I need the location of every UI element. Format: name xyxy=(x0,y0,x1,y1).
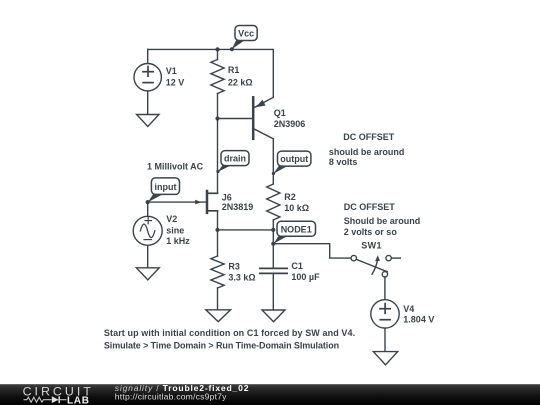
svg-text:drain: drain xyxy=(224,154,246,164)
svg-text:2N3906: 2N3906 xyxy=(274,119,306,129)
svg-text:DC OFFSET: DC OFFSET xyxy=(343,132,395,142)
capacitor C1 xyxy=(260,268,287,310)
net flag input xyxy=(148,178,180,202)
transistor Q1 (PNP 2N3906) xyxy=(253,97,273,139)
svg-text:V2: V2 xyxy=(166,214,177,224)
resistor R3 xyxy=(211,230,224,310)
arrow gate pointing right xyxy=(195,200,201,205)
CircuitLab logo diode xyxy=(52,396,59,403)
svg-text:DC OFFSET: DC OFFSET xyxy=(344,202,396,212)
wire V2 top lead xyxy=(147,202,149,216)
svg-text:output: output xyxy=(280,154,308,164)
wire switch right stub xyxy=(391,257,400,259)
svg-text:C1: C1 xyxy=(291,261,303,271)
svg-text:1 Millivolt AC: 1 Millivolt AC xyxy=(147,162,204,172)
net flag output xyxy=(272,151,311,175)
net flag drain xyxy=(216,151,249,173)
svg-text:1 kHz: 1 kHz xyxy=(166,236,190,246)
node junction dot at J6 source (217.5,230) xyxy=(215,228,219,232)
ground C1 xyxy=(262,310,285,322)
wire switch to V4 xyxy=(384,277,386,300)
node junction dot top rail / R1 xyxy=(215,47,219,51)
svg-text:sine: sine xyxy=(166,225,184,235)
svg-text:Vcc: Vcc xyxy=(238,29,254,39)
svg-text:R3: R3 xyxy=(228,261,240,271)
svg-text:12 V: 12 V xyxy=(166,77,185,87)
resistor R2 xyxy=(267,184,280,268)
node junction dot Vcc attach xyxy=(230,47,234,51)
ground V1 xyxy=(137,115,159,127)
wire V1 bottom lead xyxy=(147,91,149,115)
wire J6 gate xyxy=(148,201,206,203)
svg-text:LAB: LAB xyxy=(67,395,90,405)
wire NODE1 to switch xyxy=(273,244,351,258)
node junction dot input/gate xyxy=(146,200,150,204)
svg-text:Start up with initial conditio: Start up with initial condition on C1 fo… xyxy=(104,328,355,338)
node junction dot at (273,244) xyxy=(271,242,275,246)
svg-text:1.804 V: 1.804 V xyxy=(403,314,434,324)
svg-text:R1: R1 xyxy=(228,65,240,75)
CircuitLab logo resistor squiggle xyxy=(24,397,52,402)
svg-text:Simulate > Time Domain > Run T: Simulate > Time Domain > Run Time-Domain… xyxy=(104,340,339,350)
node junction dot at (273,230) xyxy=(271,228,275,232)
wire J6 source to NODE1 column xyxy=(218,229,274,231)
ground R3 xyxy=(206,310,231,322)
svg-text:Should be around: Should be around xyxy=(344,216,421,226)
wire V4 bottom lead xyxy=(384,328,386,352)
ground V4 xyxy=(373,352,397,365)
wire J6 source down xyxy=(217,211,219,230)
wire top rail from V1 to emitter corner xyxy=(148,49,274,97)
svg-text:Q1: Q1 xyxy=(274,108,286,118)
svg-text:NODE1: NODE1 xyxy=(281,224,312,234)
voltage source V1 xyxy=(134,63,161,90)
svg-text:2N3819: 2N3819 xyxy=(222,202,254,212)
svg-text:8 volts: 8 volts xyxy=(329,157,358,167)
svg-text:J6: J6 xyxy=(222,192,232,202)
voltage source V4 xyxy=(371,300,399,328)
svg-text:R2: R2 xyxy=(284,192,296,202)
ground V2 xyxy=(136,268,159,280)
svg-text:V4: V4 xyxy=(403,304,414,314)
node junction dot base wire xyxy=(215,116,219,120)
svg-text:should be around: should be around xyxy=(329,147,405,157)
resistor R1 xyxy=(211,49,224,118)
svg-text:3.3 kΩ: 3.3 kΩ xyxy=(228,273,255,283)
svg-text:100 µF: 100 µF xyxy=(291,272,320,282)
transistor J6 (JFET 2N3819) xyxy=(207,191,218,213)
svg-text:10 kΩ: 10 kΩ xyxy=(284,203,309,213)
net flag Vcc xyxy=(232,26,258,50)
svg-text:V1: V1 xyxy=(166,66,177,76)
svg-text:22 kΩ: 22 kΩ xyxy=(228,78,253,88)
switch SW1 xyxy=(351,255,391,277)
svg-text:http://circuitlab.com/cs9pt7y: http://circuitlab.com/cs9pt7y xyxy=(115,391,227,401)
voltage source V2 (sine) xyxy=(133,216,162,245)
svg-text:input: input xyxy=(155,182,177,192)
svg-text:SW1: SW1 xyxy=(361,240,382,250)
svg-text:2 volts or so: 2 volts or so xyxy=(344,227,398,237)
wire V2 bottom lead xyxy=(147,245,149,267)
wire Q1 base xyxy=(218,118,253,120)
net flag NODE1 xyxy=(274,221,316,244)
wire V1 top lead xyxy=(147,49,149,63)
wire collector down to R2 xyxy=(272,139,274,184)
wire J6 drain up to junction xyxy=(217,119,219,194)
